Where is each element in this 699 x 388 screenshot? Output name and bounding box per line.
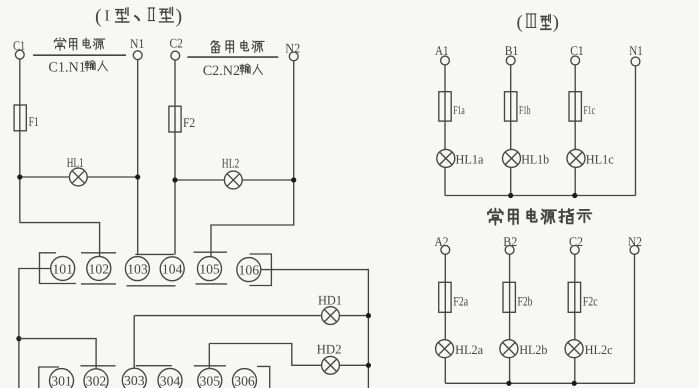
wire C2 vertical bbox=[174, 60, 176, 255]
terminal 306 bbox=[233, 369, 257, 388]
terminal 105 bbox=[198, 257, 222, 281]
wire HL2 row bbox=[175, 179, 294, 181]
lamp HL2b bbox=[500, 340, 518, 358]
svg-text:C1.N1: C1.N1 bbox=[48, 60, 85, 76]
svg-text:): ) bbox=[176, 6, 183, 28]
wire A1 vertical bbox=[444, 65, 446, 196]
svg-text:102: 102 bbox=[89, 261, 110, 276]
node junction C2 bus bbox=[572, 381, 577, 386]
label C2.N2 input bbox=[203, 63, 263, 79]
svg-text:(: ( bbox=[517, 12, 523, 33]
terminal 304 bbox=[158, 368, 182, 388]
svg-text:101: 101 bbox=[52, 261, 73, 276]
lamp HL1a bbox=[437, 149, 455, 167]
terminal N1 input bbox=[631, 57, 640, 66]
lamp HD2 bbox=[322, 356, 340, 374]
terminal B2 bbox=[505, 246, 514, 255]
wire link rail to terminal 101 bbox=[19, 269, 51, 388]
terminal strip bracket 301 bbox=[39, 367, 59, 388]
lamp HD1 bbox=[322, 307, 340, 325]
wire B1 vertical bbox=[510, 65, 512, 196]
terminal 106 bbox=[237, 258, 261, 282]
svg-text:304: 304 bbox=[160, 373, 181, 388]
label 常用电源指示 (normal power indication) bbox=[488, 209, 591, 225]
svg-text:HL2b: HL2b bbox=[519, 343, 547, 357]
wire A2 vertical bbox=[444, 254, 446, 383]
lamp HL1 bbox=[69, 168, 87, 186]
wire branch to terminal 305 bbox=[208, 344, 210, 369]
wire HD1 row bbox=[134, 315, 368, 317]
terminal strip bracket 106 bbox=[249, 254, 271, 286]
fuse F2a bbox=[439, 282, 451, 312]
terminal 103 bbox=[125, 257, 149, 281]
svg-text:303: 303 bbox=[124, 373, 145, 388]
node junction C1-HL1 bbox=[17, 174, 22, 179]
terminal A2 bbox=[441, 246, 450, 255]
node junction to 302 bbox=[16, 336, 21, 341]
svg-text:F1: F1 bbox=[29, 114, 39, 129]
terminal B1 bbox=[506, 56, 515, 65]
terminal A1 bbox=[441, 56, 450, 65]
svg-text:HL2: HL2 bbox=[222, 156, 240, 171]
wire branch to terminal 303 bbox=[133, 316, 135, 369]
wire 106 to HD lamps bbox=[261, 270, 369, 388]
svg-text:(: ( bbox=[95, 6, 102, 28]
lamp HL1c bbox=[567, 149, 585, 167]
lamp HL2 bbox=[224, 171, 242, 189]
node junction N2-HL2 bbox=[291, 177, 296, 182]
wire N1 vertical bbox=[635, 66, 637, 196]
terminal C1 bbox=[15, 50, 24, 59]
terminal strip bar 305 bbox=[194, 365, 226, 367]
wire HD2 row bbox=[209, 344, 368, 366]
wire label underline C2.N2 bbox=[187, 56, 278, 58]
svg-text:305: 305 bbox=[200, 373, 221, 388]
label C1.N1 input bbox=[48, 60, 107, 76]
terminal strip bracket 306 bbox=[257, 366, 270, 388]
label 备用电源 (standby power) bbox=[211, 40, 264, 53]
node junction HD1 bbox=[366, 313, 371, 318]
svg-text:F1a: F1a bbox=[453, 103, 465, 117]
terminal 301 bbox=[50, 369, 74, 388]
wire label underline C1.N1 bbox=[33, 54, 126, 56]
node junction C1 bus bbox=[572, 193, 577, 198]
svg-text:HL1a: HL1a bbox=[456, 152, 484, 166]
lamp HL1b bbox=[503, 149, 521, 167]
svg-text:HL1b: HL1b bbox=[521, 152, 549, 166]
svg-text:C2.N2: C2.N2 bbox=[203, 63, 240, 79]
svg-text:103: 103 bbox=[127, 262, 148, 277]
svg-text:HL2a: HL2a bbox=[455, 343, 483, 357]
svg-text:106: 106 bbox=[239, 263, 260, 278]
svg-text:I: I bbox=[105, 8, 110, 25]
terminal 102 bbox=[87, 256, 111, 280]
terminal strip bracket 101 bbox=[40, 253, 77, 284]
bus normal power indication bbox=[445, 195, 636, 197]
terminal C2 bbox=[570, 246, 579, 255]
svg-text:301: 301 bbox=[51, 374, 72, 388]
svg-text:F2c: F2c bbox=[583, 294, 598, 309]
svg-text:104: 104 bbox=[162, 262, 183, 277]
svg-text:302: 302 bbox=[86, 374, 107, 388]
wire B2 vertical bbox=[509, 254, 511, 383]
node junction N1-HL1 bbox=[135, 174, 140, 179]
svg-text:HD2: HD2 bbox=[317, 342, 342, 357]
bus standby indication bbox=[445, 382, 634, 384]
terminal 303 bbox=[122, 368, 146, 388]
title (I-type, II-type) bbox=[95, 6, 182, 28]
lamp HL2a bbox=[436, 340, 454, 358]
wire C2 vertical bbox=[574, 254, 576, 383]
wire branch to terminal 302 bbox=[19, 339, 96, 370]
wire N2 vertical to terminal 105 bbox=[211, 61, 294, 258]
terminal strip bar 103-104 bbox=[127, 254, 176, 285]
wire HL1 row bbox=[20, 176, 138, 178]
terminal C2 bbox=[171, 51, 180, 60]
terminal strip bar 303-304 bbox=[136, 365, 172, 367]
terminal N2 bbox=[289, 52, 298, 61]
fuse F2b bbox=[503, 282, 515, 312]
svg-text:HL1c: HL1c bbox=[586, 152, 614, 166]
wire N2 vertical bbox=[634, 254, 636, 383]
wire N1 vertical bbox=[137, 60, 139, 255]
terminal 101 bbox=[51, 256, 75, 280]
svg-text:105: 105 bbox=[199, 262, 220, 277]
svg-text:F2: F2 bbox=[183, 115, 195, 130]
svg-text:306: 306 bbox=[234, 374, 255, 388]
svg-text:HL2c: HL2c bbox=[585, 343, 613, 357]
terminal 302 bbox=[84, 369, 108, 388]
title (III-type) bbox=[517, 12, 559, 33]
lamp HL2c bbox=[565, 340, 583, 358]
svg-text:F2b: F2b bbox=[518, 294, 533, 309]
fuse F2 bbox=[169, 106, 181, 132]
svg-text:C2: C2 bbox=[170, 36, 183, 51]
terminal 305 bbox=[198, 368, 222, 388]
fuse F2c bbox=[568, 282, 580, 312]
wire branch to terminal 102 bbox=[20, 223, 100, 258]
terminal 104 bbox=[160, 257, 184, 281]
fuse F1 bbox=[14, 105, 26, 131]
fuse F1b bbox=[505, 92, 517, 121]
svg-text:): ) bbox=[553, 12, 559, 33]
svg-text:N1: N1 bbox=[130, 36, 144, 51]
terminal strip bar 102 bbox=[81, 253, 116, 284]
svg-text:HD1: HD1 bbox=[318, 293, 342, 308]
terminal N1 bbox=[133, 51, 142, 60]
fuse F1a bbox=[439, 92, 451, 121]
node junction C2-HL2 bbox=[172, 177, 177, 182]
node junction HD2 bbox=[366, 363, 371, 368]
terminal strip bar 302 bbox=[81, 365, 116, 367]
svg-text:HL1: HL1 bbox=[67, 155, 84, 170]
wire C1 vertical bbox=[574, 65, 576, 196]
wire C1 vertical bbox=[19, 59, 21, 223]
svg-text:F2a: F2a bbox=[453, 294, 468, 309]
terminal C1 bbox=[571, 56, 580, 65]
node junction B2 bus bbox=[506, 381, 511, 386]
terminal N2 input bbox=[630, 246, 639, 255]
node junction B1 bus bbox=[508, 193, 513, 198]
terminal strip bar 105 bbox=[194, 252, 228, 284]
label 常用电源 (normal power) bbox=[54, 38, 105, 51]
svg-text:N1: N1 bbox=[629, 43, 643, 58]
svg-text:F1b: F1b bbox=[519, 103, 531, 117]
svg-text:F1c: F1c bbox=[584, 103, 596, 117]
fuse F1c bbox=[569, 92, 581, 121]
